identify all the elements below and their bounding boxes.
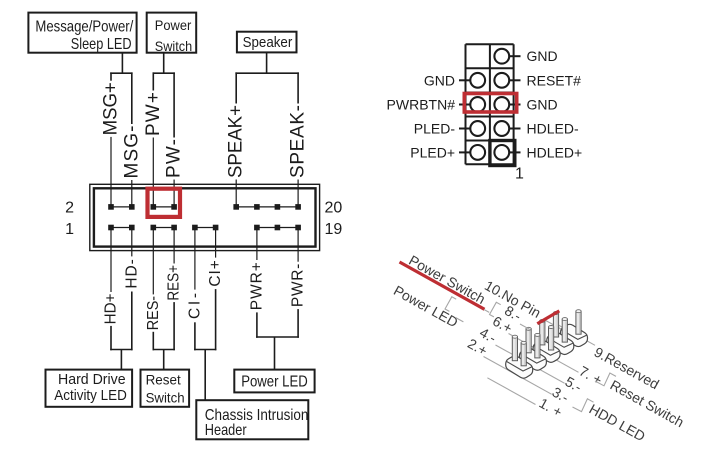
- wire lead HD-: [131, 228, 133, 257]
- wire fork Chassis Intrusion: [194, 289, 216, 400]
- svg-text:Power LED: Power LED: [241, 374, 308, 391]
- svg-text:RESET#: RESET#: [527, 72, 582, 88]
- box Message/Power/Sleep LED: [28, 13, 136, 54]
- red highlight PWRBTN#/GND row: [464, 94, 516, 113]
- pins top row (2-20): [108, 204, 301, 210]
- isometric 10-pin header (pin 10 absent): [506, 310, 588, 378]
- wire fork Message LED: [110, 53, 132, 124]
- svg-text:Speaker: Speaker: [243, 34, 293, 51]
- svg-text:20: 20: [325, 200, 343, 217]
- svg-text:HDLED+: HDLED+: [527, 144, 583, 160]
- header pin circles: [470, 49, 509, 160]
- wire lead PW+: [152, 138, 154, 207]
- wire lead PW-: [173, 180, 175, 207]
- svg-text:Hard Drive: Hard Drive: [58, 371, 126, 388]
- svg-text:GND: GND: [527, 97, 558, 113]
- leader pin8 dash: [520, 324, 530, 329]
- wire lead RES+: [173, 228, 175, 264]
- right tick lines: [509, 56, 520, 152]
- red mark on power-switch pins: [537, 311, 559, 324]
- svg-text:Power: Power: [155, 17, 192, 33]
- box Chassis Intrusion Header: [196, 400, 308, 439]
- box Reset Switch: [141, 370, 190, 407]
- svg-text:PW-: PW-: [164, 139, 185, 178]
- svg-text:Switch: Switch: [146, 389, 185, 405]
- leader line pins 2-3: [484, 357, 552, 395]
- svg-text:2: 2: [65, 200, 74, 217]
- bracket HDD LED to pins 3,1: [573, 399, 594, 412]
- leader line pins 4-5: [496, 345, 565, 383]
- svg-text:PLED-: PLED-: [414, 121, 456, 137]
- svg-text:PWR-: PWR-: [290, 264, 307, 307]
- pin 1 thick cell: [490, 141, 515, 166]
- wire fork Hard Drive LED: [110, 292, 132, 370]
- wire fork Reset Switch: [153, 302, 175, 370]
- svg-text:SPEAK+: SPEAK+: [226, 105, 247, 178]
- svg-text:Switch: Switch: [155, 38, 192, 54]
- leader line pin 10: [543, 319, 580, 339]
- pins bottom row (1-19): [108, 225, 301, 231]
- wire lead CI-: [194, 228, 196, 290]
- header grid 2x5: [466, 44, 514, 164]
- svg-text:RES-: RES-: [145, 296, 162, 330]
- wire fork Speaker: [235, 52, 299, 103]
- svg-text:CI-: CI-: [186, 293, 203, 319]
- svg-text:PLED+: PLED+: [410, 144, 455, 160]
- svg-text:Message/Power/: Message/Power/: [35, 18, 133, 35]
- svg-text:HD-: HD-: [123, 259, 140, 289]
- wire lead SPEAK+: [235, 180, 237, 207]
- wire lead MSG+: [110, 137, 112, 207]
- wire lead CI+: [215, 228, 217, 258]
- leader line pin 1: [487, 378, 535, 405]
- svg-text:PW+: PW+: [143, 92, 164, 136]
- connector front-panel header inner: [94, 188, 316, 246]
- svg-text:Activity LED: Activity LED: [54, 387, 127, 404]
- svg-text:1: 1: [515, 166, 524, 183]
- wire lead HD+: [110, 228, 112, 293]
- wire lead PWR-: [297, 228, 299, 262]
- leader line pins 6-7: [509, 334, 579, 373]
- leader line pin 9: [556, 324, 595, 346]
- svg-text:19: 19: [325, 221, 343, 238]
- svg-text:HD+: HD+: [103, 293, 120, 324]
- svg-text:MSG-: MSG-: [121, 126, 142, 179]
- red highlight PW+/PW- pins: [148, 189, 181, 217]
- box Speaker: [237, 32, 297, 53]
- svg-text:GND: GND: [527, 48, 558, 64]
- wire fork Power LED: [256, 309, 299, 370]
- svg-text:Header: Header: [205, 422, 247, 439]
- svg-text:SPEAK-: SPEAK-: [288, 105, 309, 178]
- svg-text:Sleep LED: Sleep LED: [71, 36, 132, 53]
- box Power Switch: [147, 13, 197, 54]
- leader Power Switch dash: [484, 310, 489, 313]
- wire fork Power Switch: [153, 53, 175, 138]
- bracket Power Switch to pins 8,6: [490, 302, 501, 317]
- leader Power LED dash: [456, 318, 464, 322]
- bracket Power LED to pins 4,2: [445, 297, 456, 312]
- wire lead RES-: [152, 228, 154, 295]
- svg-text:MSG+: MSG+: [101, 82, 122, 135]
- svg-text:Reset: Reset: [146, 371, 181, 387]
- svg-text:CI+: CI+: [207, 260, 224, 287]
- wire lead PWR+: [256, 228, 258, 261]
- left tick lines: [459, 80, 470, 152]
- svg-text:HDLED-: HDLED-: [527, 121, 579, 137]
- box Hard Drive Activity LED: [46, 370, 133, 407]
- svg-text:GND: GND: [424, 72, 455, 88]
- svg-text:PWRBTN#: PWRBTN#: [387, 97, 456, 113]
- wire lead SPEAK-: [297, 180, 299, 207]
- red underline Power Switch: [400, 262, 485, 309]
- svg-text:PWR+: PWR+: [248, 262, 265, 310]
- bracket Reset Switch to pins 7,5: [595, 373, 616, 386]
- connector front-panel header outer: [90, 184, 320, 250]
- box Power LED: [234, 370, 314, 393]
- wire lead MSG-: [131, 180, 133, 207]
- svg-text:RES+: RES+: [166, 265, 183, 301]
- svg-text:1: 1: [65, 221, 74, 238]
